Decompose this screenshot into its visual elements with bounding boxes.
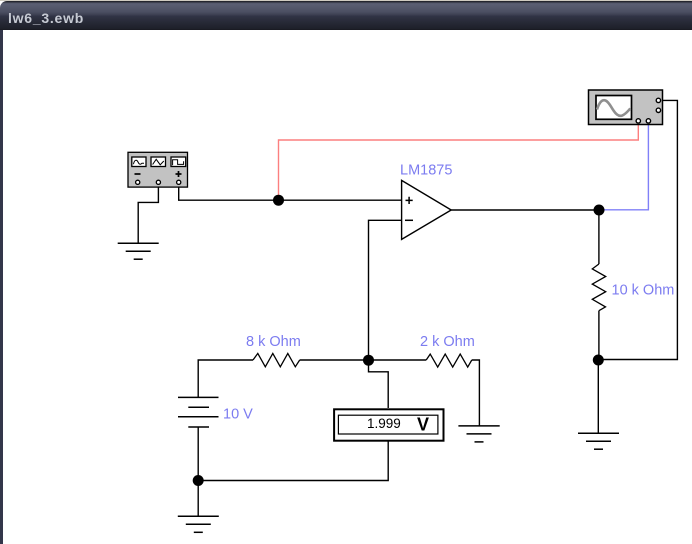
wire: battery bottom lead to node E xyxy=(197,427,199,481)
window top light line xyxy=(0,0,692,1)
wire: node D down to ground xyxy=(597,360,599,433)
wire: op-amp output to node C xyxy=(451,209,599,211)
wire: red wire node A to oscilloscope channel A xyxy=(279,125,639,200)
battery V1 10 V xyxy=(178,397,219,427)
ground (node E / battery) xyxy=(178,516,219,532)
wire: 2k resistor right lead to ground xyxy=(472,360,480,426)
ground (function generator) xyxy=(118,243,159,259)
wire: node C down to 10k resistor xyxy=(598,210,600,264)
node D junction dot xyxy=(593,355,604,366)
ground (2k resistor) xyxy=(458,426,499,442)
resistor R2 2 k Ohm xyxy=(426,354,472,367)
wire: voltmeter bottom to node E xyxy=(198,441,388,481)
wire: op-amp inverting input to feedback node B xyxy=(369,220,402,360)
window title bar xyxy=(0,1,692,30)
node E junction dot xyxy=(193,475,204,486)
wire: function generator middle terminal to ground xyxy=(138,184,158,243)
wire: node E down to ground xyxy=(197,481,199,517)
svg-text:10 V: 10 V xyxy=(223,407,253,423)
window title text xyxy=(8,10,84,26)
wire: node B to voltmeter top xyxy=(369,360,389,408)
svg-text:8 k Ohm: 8 k Ohm xyxy=(246,334,301,350)
node A junction dot xyxy=(273,195,284,206)
window left border xyxy=(0,30,3,544)
wire: function generator + terminal to op-amp + input (node A run) xyxy=(179,184,402,200)
svg-text:V: V xyxy=(417,415,429,435)
node C junction dot xyxy=(594,205,605,216)
op-amp U1 LM1875 xyxy=(402,180,452,239)
svg-text:1.999: 1.999 xyxy=(367,416,401,431)
wire: node B to 2k resistor xyxy=(369,359,427,361)
resistor R3 10 k Ohm (vertical) xyxy=(592,264,605,311)
oscilloscope XSC1 xyxy=(589,90,663,125)
svg-text:2 k Ohm: 2 k Ohm xyxy=(420,334,475,350)
wire: battery top lead to 8k resistor xyxy=(198,360,253,397)
wire: blue wire oscilloscope channel B to node C xyxy=(599,125,648,210)
node B junction dot xyxy=(363,355,374,366)
ground (node D / 10k resistor) xyxy=(578,433,619,449)
voltmeter M1 xyxy=(334,409,443,440)
wire: 10k resistor to node D xyxy=(598,311,600,360)
wire: oscilloscope right terminal loop to node D xyxy=(598,100,677,359)
svg-text:LM1875: LM1875 xyxy=(400,163,452,179)
svg-text:10 k Ohm: 10 k Ohm xyxy=(612,283,675,299)
resistor R1 8 k Ohm xyxy=(253,353,300,366)
wire: 8k resistor to node B xyxy=(300,359,369,361)
function generator XFG1 xyxy=(128,152,188,187)
